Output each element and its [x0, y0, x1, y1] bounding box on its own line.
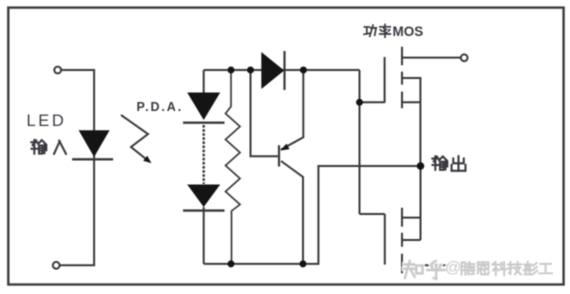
- svg-text:LED: LED: [27, 112, 67, 130]
- svg-text:P.D.A.: P.D.A.: [137, 100, 184, 114]
- svg-text:MOS: MOS: [393, 24, 424, 39]
- svg-text:@: @: [445, 260, 461, 277]
